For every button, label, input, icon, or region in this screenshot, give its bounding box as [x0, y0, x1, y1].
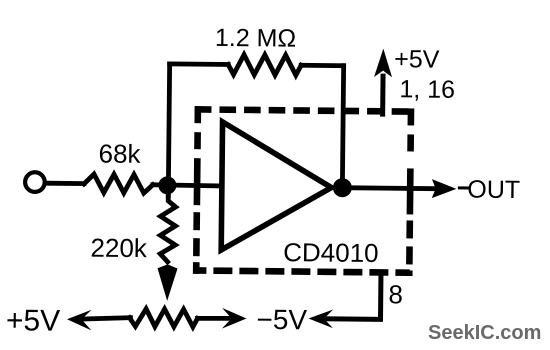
- svg-text:OUT: OUT: [467, 176, 520, 205]
- IC boundary dashed box top edge: [195, 109, 412, 111]
- svg-text:68k: 68k: [98, 138, 141, 168]
- IC boundary dashed box right edge: [409, 108, 411, 276]
- +5V supply pin stub (pins 1,16): [380, 76, 385, 114]
- wire: pot left end to +5V arrow: [81, 317, 130, 319]
- svg-text:+5V: +5V: [6, 304, 61, 338]
- svg-text:8: 8: [388, 279, 403, 309]
- -5V arrowhead (right, from pot): [222, 308, 247, 329]
- wire: node A up to feedback rail: [168, 64, 169, 196]
- node A junction dot (input node): [158, 176, 176, 194]
- +5V arrowhead (left, bottom rail): [67, 310, 92, 331]
- svg-text:1.2 MΩ: 1.2 MΩ: [215, 24, 297, 53]
- resistor R1 68k (zigzag): [84, 174, 153, 193]
- op-amp buffer U1 (triangle, CD4010): [221, 122, 332, 251]
- wire: input terminal to R1: [46, 181, 83, 186]
- potentiometer R4 body (horizontal zigzag): [129, 309, 197, 327]
- wiper arrowhead of R3 pointing down at potentiometer: [157, 264, 177, 301]
- IC boundary dashed box bottom edge: [193, 270, 410, 272]
- wire: feedback right drop to output node: [342, 66, 343, 187]
- node B junction dot (output node): [333, 178, 352, 197]
- resistor R2 1.2 Mohm (feedback zigzag): [228, 55, 301, 76]
- input terminal (open circle): [25, 172, 45, 192]
- wire stub before OUT label: [459, 186, 467, 189]
- +5V supply arrowhead (up): [374, 49, 392, 78]
- svg-text:+5V: +5V: [394, 45, 440, 73]
- svg-text:CD4010: CD4010: [283, 237, 379, 268]
- svg-text:1, 16: 1, 16: [399, 75, 455, 104]
- resistor R3 220k (vertical zigzag from node A): [160, 195, 176, 262]
- svg-text:−5V: −5V: [256, 304, 307, 336]
- wire: feedback top rail left segment: [170, 61, 228, 66]
- -5V arrowhead (left, to pin 8 wire): [308, 309, 333, 328]
- svg-text:220k: 220k: [90, 233, 148, 264]
- wire: output node to OUT arrow: [342, 185, 433, 191]
- wire: pot right end to -5V arrow: [197, 316, 230, 322]
- IC boundary dashed box left edge: [196, 106, 198, 274]
- pin 8 wire: from IC bottom down and left to -5V: [324, 272, 380, 319]
- svg-text:SeekIC.com: SeekIC.com: [428, 322, 541, 344]
- wire: feedback top rail right segment: [301, 63, 343, 68]
- OUT arrowhead: [432, 179, 457, 198]
- wire: R1 to buffer input: [153, 185, 222, 186]
